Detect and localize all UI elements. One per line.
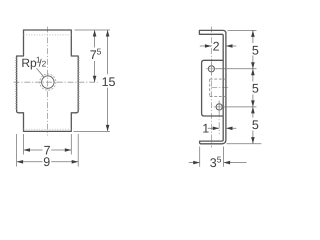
front plate outline (cross shaped) (17, 30, 79, 131)
threaded hole inner circle (42, 76, 54, 88)
hole 2 circle (214, 101, 225, 112)
right chain texts 5 5 5 (252, 43, 259, 131)
dimension 7 arrows (24, 148, 72, 152)
hole2 vertical centerline (218, 101, 220, 135)
dimension 3.5 (bottom) (189, 147, 247, 171)
top serration dashed line (24, 34, 72, 36)
extension line bottom right (74, 130, 111, 132)
dimension 7.5 vertical line (94, 30, 96, 82)
svg-text:2: 2 (42, 58, 47, 68)
svg-text:5: 5 (97, 47, 102, 57)
hole 1 circle (206, 63, 217, 74)
svg-text:9: 9 (43, 155, 50, 169)
thread outer circle (40, 74, 56, 90)
dimension 7.5 arrows (93, 30, 97, 82)
extension line top right (75, 29, 111, 31)
svg-text:3: 3 (210, 156, 217, 170)
hole1 vertical centerline (210, 27, 212, 148)
svg-text:5: 5 (252, 43, 259, 57)
bracket profile: top flange, back plate, bottom flange (199, 30, 226, 143)
block body on plate (202, 60, 224, 116)
svg-text:5: 5 (252, 81, 259, 95)
right chain extension lines (216, 30, 262, 143)
dimension 15 vertical line (107, 30, 109, 131)
right edge serration ticks (78, 58, 80, 108)
svg-text:15: 15 (102, 75, 116, 89)
dimension 7 horizontal line (24, 149, 72, 151)
dimension 9 arrows (17, 160, 79, 164)
bottom extension lines front view (17, 134, 79, 167)
svg-text:2: 2 (213, 40, 220, 54)
svg-text:1: 1 (202, 122, 209, 136)
front view horizontal centerline (also extension for 7.5 dim) (14, 81, 98, 83)
front view vertical centerline (46, 27, 48, 136)
bottom serration dashed line (24, 128, 72, 130)
svg-text:5: 5 (252, 118, 259, 132)
hidden slot dashed (210, 79, 226, 96)
thread horizontal centerline (211, 87, 228, 89)
leader line from Rp1/2 to hole (37, 68, 45, 77)
dimension 15 arrows (106, 30, 110, 131)
dimension 1 (lower left) (202, 122, 236, 136)
dimension 9 horizontal line (17, 161, 79, 163)
right chain arrows (251, 30, 255, 143)
Rp 1/2 label (21, 54, 46, 70)
right dimension chain line (252, 30, 254, 143)
dimension 2 (top) (200, 40, 237, 54)
svg-text:Rp: Rp (21, 56, 37, 70)
left edge serration ticks (15, 58, 17, 108)
svg-text:5: 5 (217, 154, 222, 164)
